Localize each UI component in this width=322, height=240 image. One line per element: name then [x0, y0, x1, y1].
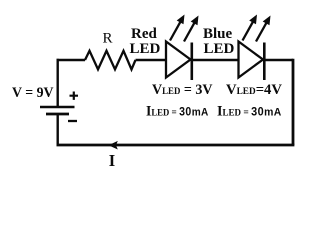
battery V1 bottom plate (-)	[46, 113, 69, 116]
LED D1 light arrow 1	[170, 15, 185, 41]
svg-text:LED: LED	[130, 41, 161, 57]
battery - sign	[68, 120, 77, 122]
svg-text:Blue: Blue	[203, 26, 233, 42]
wire: resistor to red LED	[136, 59, 166, 61]
LED D1 cathode bar	[191, 43, 194, 81]
LED D1 light arrow 2	[184, 16, 199, 42]
wire: red LED to blue LED	[192, 59, 238, 61]
svg-text:R: R	[103, 31, 113, 47]
wire: top-left horizontal from corner to resistor	[57, 59, 86, 61]
resistor R	[85, 51, 136, 70]
wire: left vertical from top corner down to battery top plate	[57, 59, 59, 106]
battery + sign	[70, 92, 79, 100]
battery V1 top plate (+)	[40, 106, 75, 108]
wire: blue LED to top-right corner	[264, 59, 293, 61]
LED D1 (red) triangle	[166, 42, 191, 78]
LED D2 cathode bar	[263, 43, 266, 81]
svg-text:V = 9V: V = 9V	[12, 85, 54, 101]
LED D2 light arrow 2	[256, 16, 271, 42]
wire: battery bottom plate to bottom-left corner	[57, 114, 59, 145]
wire: bottom horizontal	[57, 144, 295, 147]
svg-text:Red: Red	[131, 26, 157, 42]
svg-text:LED: LED	[204, 41, 235, 57]
current arrow I on bottom wire	[109, 141, 118, 150]
LED D2 light arrow 1	[243, 15, 258, 41]
svg-text:I: I	[109, 151, 115, 170]
wire: right vertical	[292, 59, 295, 145]
svg-text:VLED = 3V: VLED = 3V	[152, 82, 213, 98]
LED D2 (blue) triangle	[239, 42, 264, 78]
